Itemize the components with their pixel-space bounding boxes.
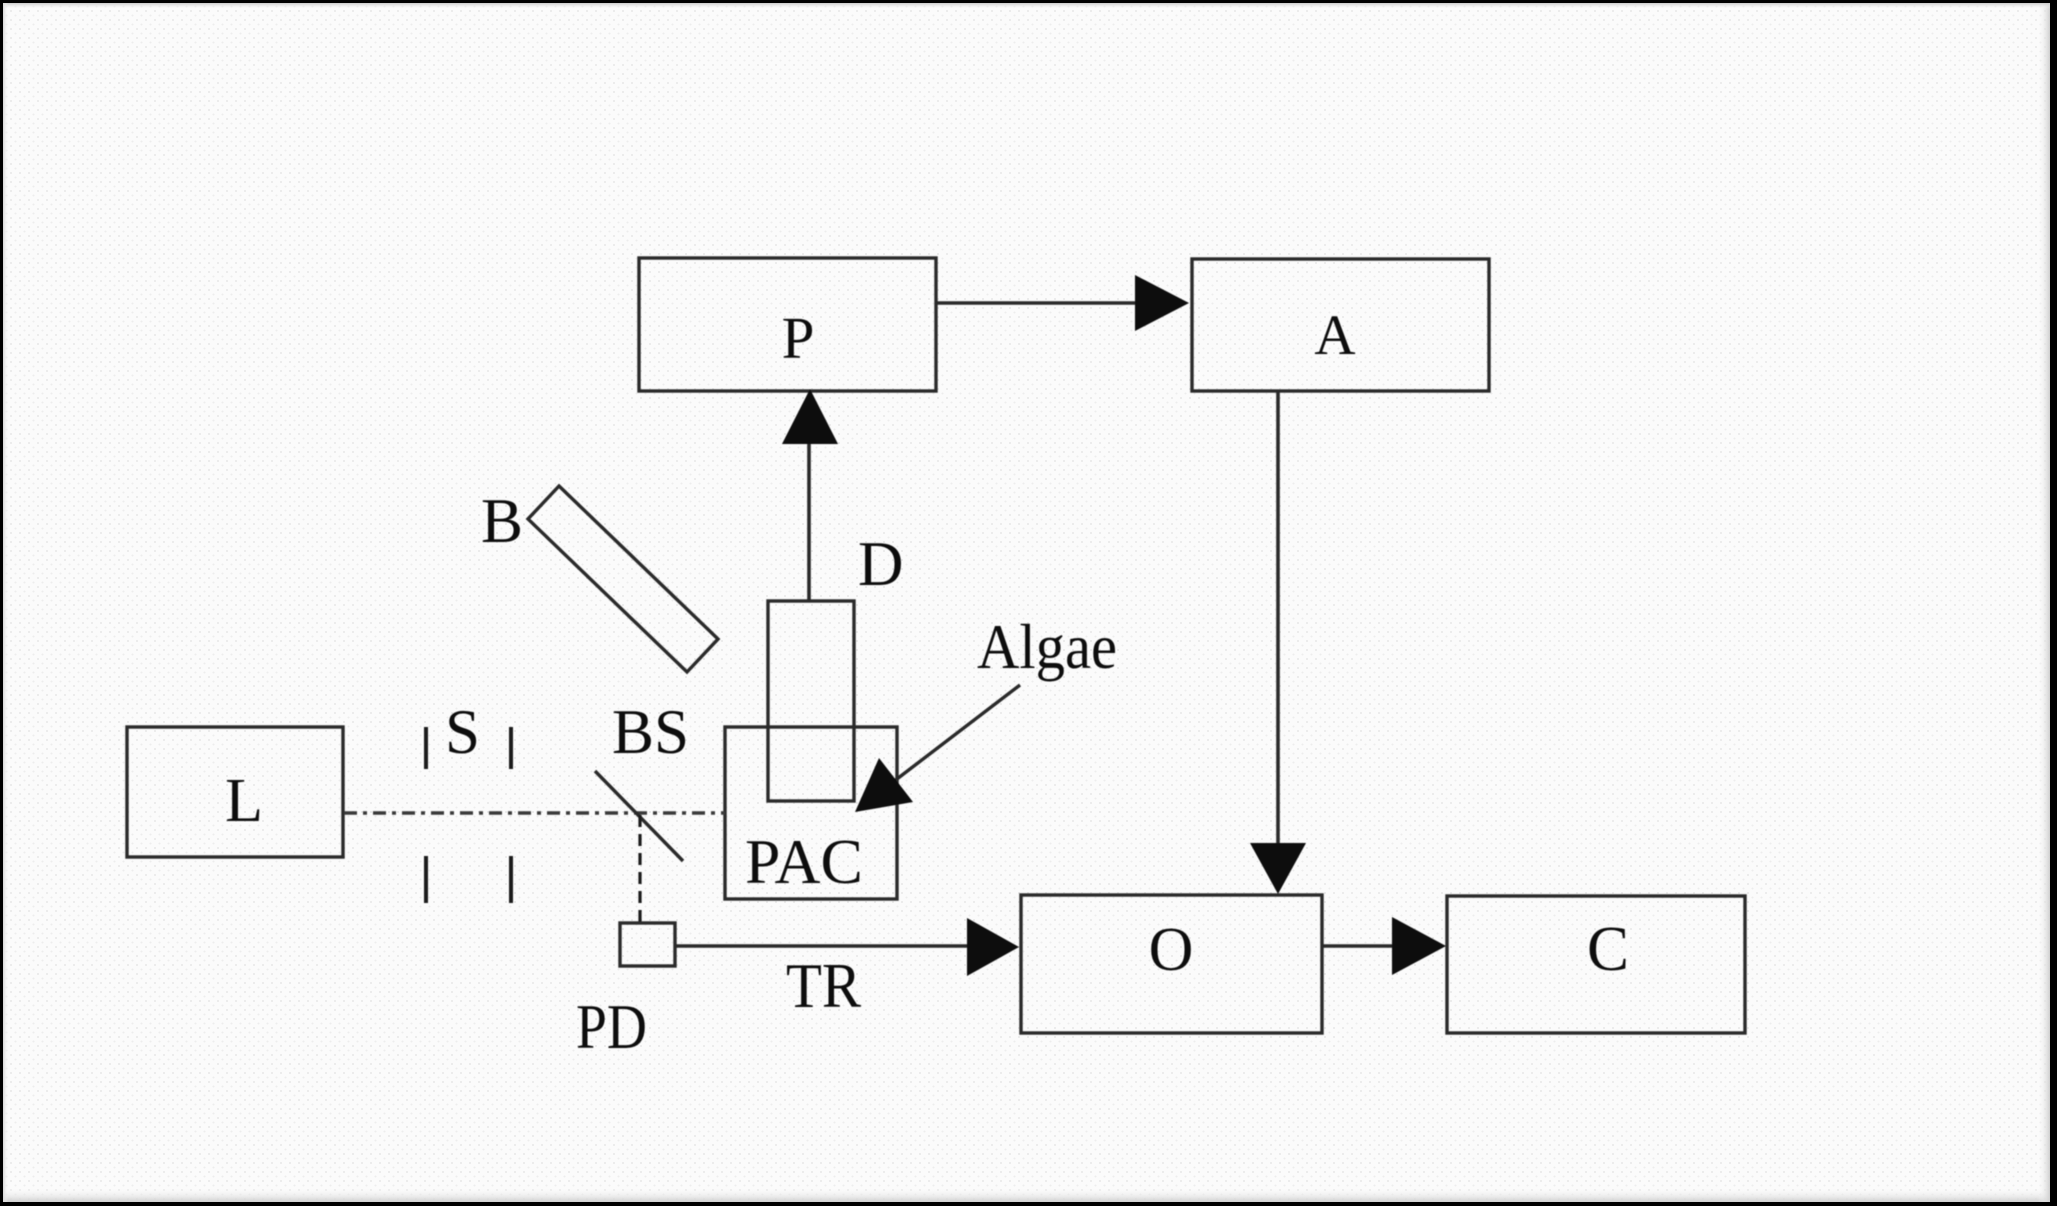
scan vignette strips (0, 1188, 2057, 1202)
svg-text:O: O (1149, 916, 1194, 984)
arrowhead P to A (1135, 275, 1189, 331)
slit S lower-right bar (509, 856, 513, 903)
svg-text:C: C (1587, 914, 1629, 984)
svg-text:PD: PD (576, 992, 647, 1062)
svg-text:B: B (481, 486, 523, 556)
box L (127, 727, 343, 857)
svg-text:BS: BS (612, 697, 689, 767)
arrowhead A to O (1250, 843, 1306, 894)
mirror B (tilted rectangle) (528, 486, 718, 672)
arrowhead Algae to PAC (855, 758, 913, 812)
wire A to O (1276, 391, 1280, 844)
svg-text:D: D (858, 529, 904, 599)
outer black frame (0, 0, 2057, 3)
svg-text:A: A (1314, 304, 1355, 367)
beam line L to PAC (dash-dot) (344, 811, 725, 815)
wire D to P (807, 443, 811, 601)
box C (1447, 896, 1745, 1033)
svg-text:S: S (445, 697, 480, 767)
box D (768, 601, 854, 801)
arrowhead O to C (1392, 917, 1446, 975)
svg-text:PAC: PAC (745, 827, 863, 897)
dashed beam BS to PD (638, 815, 641, 923)
slit S upper-right bar (509, 727, 513, 769)
svg-text:Algae: Algae (977, 612, 1117, 682)
slit S lower-left bar (424, 856, 428, 903)
arrowhead TR to O (967, 918, 1019, 976)
slit S upper-left bar (424, 727, 428, 769)
svg-text:L: L (225, 767, 263, 835)
box PAC (725, 727, 897, 899)
wire O to C (1322, 944, 1394, 948)
wire TR: PD to O (675, 944, 970, 948)
svg-text:P: P (782, 305, 815, 371)
photodiode PD (620, 923, 675, 966)
box O (1021, 895, 1322, 1033)
box A (1192, 259, 1489, 391)
beam splitter BS (595, 771, 683, 861)
wire P to A (936, 301, 1139, 305)
Algae pointer line (893, 685, 1020, 782)
svg-text:TR: TR (786, 951, 861, 1021)
arrowhead D to P (782, 389, 838, 444)
box P (639, 258, 936, 391)
